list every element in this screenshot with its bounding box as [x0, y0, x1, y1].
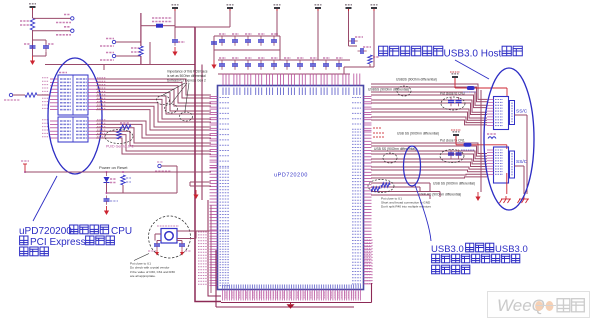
capacitor C31 [336, 58, 343, 70]
wire USB3 SS bus lower [371, 143, 487, 178]
annotation left [19, 225, 132, 256]
label put close CN3 [440, 92, 465, 96]
ferrite bead FB3 [461, 143, 475, 150]
dashed ellipse trace [383, 153, 397, 163]
resistor R40 [371, 183, 390, 191]
resistor R44 [368, 55, 379, 64]
U1 top pins [223, 74, 360, 96]
svg-text:Power on Reset: Power on Reset [99, 165, 128, 170]
power flag [371, 5, 378, 14]
wire [195, 11, 230, 27]
capacitor C17 [245, 58, 252, 70]
callout crystal note [130, 262, 175, 279]
wire [155, 231, 210, 244]
label Power on Reset [99, 165, 128, 170]
watermark text [497, 296, 584, 315]
svg-text:USB SS (90Ohm differential): USB SS (90Ohm differential) [374, 147, 416, 151]
capacitor C45 [456, 97, 462, 106]
ground [287, 303, 295, 309]
ground [193, 190, 198, 199]
U1 left pin labels [198, 232, 208, 284]
U1 right pin labels [364, 240, 373, 284]
capacitor C47 [456, 150, 462, 159]
wire [24, 171, 211, 173]
capacitor C60 [148, 241, 160, 252]
wire [276, 11, 278, 36]
dashed ellipse PU/D [105, 130, 133, 144]
wire [481, 90, 507, 194]
wire [214, 49, 280, 51]
power flag VCC 3V3 [29, 4, 36, 13]
wire [214, 36, 280, 60]
wire [515, 115, 528, 194]
ellipse around JP2 [48, 58, 102, 174]
capacitor C5 [43, 43, 54, 52]
node pcietxp [33, 15, 74, 23]
inductor L2 [487, 134, 496, 139]
ground [475, 192, 480, 201]
svg-text:Put close to CN1: Put close to CN1 [440, 139, 465, 143]
watermark box [488, 292, 590, 318]
svg-text:CPU: CPU [111, 226, 132, 237]
U1 left pins [210, 97, 230, 286]
label put close CN1 [440, 139, 465, 143]
svg-text:SS/C: SS/C [516, 109, 528, 115]
wire [373, 11, 375, 67]
node perst [4, 93, 25, 100]
wire [190, 182, 211, 186]
dashed ellipse trace 1 [157, 96, 170, 105]
svg-text:PCI Express: PCI Express [30, 237, 86, 248]
resistor R2 [121, 175, 131, 185]
dashed ellipse trace [397, 86, 411, 96]
svg-text:USB SS (90Ohm differential): USB SS (90Ohm differential) [433, 182, 475, 186]
node pcierxn [100, 53, 141, 61]
svg-text:uPD720200: uPD720200 [19, 226, 72, 237]
capacitor C56 [219, 34, 226, 46]
power flag [227, 5, 234, 14]
svg-text:are all appropriate.: are all appropriate. [130, 274, 156, 278]
connector CN3 [487, 97, 528, 130]
node pciebwake [155, 162, 177, 171]
ground [180, 250, 184, 256]
annotation right [431, 243, 528, 274]
ground [104, 206, 109, 215]
ground [155, 250, 159, 256]
power flag down [21, 161, 29, 172]
capacitor C33 [349, 37, 364, 44]
U1 bottom pins [223, 285, 361, 301]
dashed ellipse caps CN3 [441, 97, 465, 110]
resistor R46 [120, 123, 131, 129]
dashed ellipse trace 3 [180, 112, 193, 121]
power flag VCC-5 [450, 72, 460, 83]
capacitor C1 [172, 37, 185, 46]
capacitor C11 [271, 34, 278, 46]
wire [456, 138, 507, 149]
wire [455, 80, 507, 97]
wire [25, 171, 124, 173]
svg-text:PU/D Gen to JP2: PU/D Gen to JP2 [106, 145, 134, 149]
capacitor C9 [258, 34, 265, 46]
power flag [345, 5, 352, 14]
svg-text:to meet PCI Express Gen 2: to meet PCI Express Gen 2 [167, 78, 206, 82]
wire [348, 11, 350, 41]
node pcietxn [33, 27, 74, 35]
callout R40 note [381, 197, 431, 209]
label USBSS2 [374, 147, 416, 151]
connector JP2 [42, 73, 106, 143]
power flag VCC-5 [451, 130, 461, 141]
leader line [455, 60, 489, 79]
capacitor C58 [232, 34, 239, 46]
svg-text:Put close to CN3: Put close to CN3 [440, 92, 465, 96]
capacitor C7 [245, 34, 252, 46]
label USBSS3 [433, 182, 475, 186]
capacitor C23 [284, 58, 291, 70]
label USBSS mid [397, 132, 439, 136]
label USB3S [396, 78, 437, 82]
wire [174, 11, 176, 38]
capacitor C21 [271, 58, 278, 70]
capacitor C46 [448, 150, 454, 159]
red labels [373, 128, 385, 137]
ground [211, 60, 216, 69]
wire [141, 42, 195, 65]
ferrite bead FB2 [463, 86, 477, 92]
op-amp U1 body [218, 86, 364, 290]
svg-text:USB3.0: USB3.0 [495, 244, 528, 255]
power flag [274, 5, 281, 14]
wire [317, 11, 319, 60]
svg-text:USB SS (90Ohm differential): USB SS (90Ohm differential) [397, 132, 439, 136]
U1 right pins [352, 97, 372, 284]
chassis ground [518, 196, 530, 203]
annotation top right [379, 46, 523, 59]
svg-text:SS/C: SS/C [516, 159, 528, 165]
crystal X1 [157, 226, 179, 243]
capacitor C15 [232, 58, 239, 70]
wire [218, 59, 350, 61]
callout arrows [163, 83, 189, 111]
capacitor C27 [310, 58, 317, 70]
chassis ground [500, 196, 512, 203]
wire [175, 26, 195, 28]
svg-text:is set as 50Ohm differential: is set as 50Ohm differential [167, 74, 206, 78]
connector CN1 [487, 147, 528, 183]
wire [141, 25, 156, 27]
capacitor C44 [448, 97, 454, 106]
svg-text:USB3S (90Ohm differential): USB3S (90Ohm differential) [396, 78, 437, 82]
ellipse six data lines [404, 146, 421, 186]
svg-text:Don't split R40 into multiple: Don't split R40 into multiple resistors [381, 205, 431, 209]
power flag [315, 5, 322, 14]
capacitor C13 [219, 58, 226, 70]
capacitor C55 [211, 39, 217, 48]
wire [106, 166, 178, 194]
svg-text:USB3.0 Host: USB3.0 Host [444, 49, 502, 60]
resistor R45 [117, 130, 121, 139]
leader line [134, 254, 149, 261]
wire bottom bus [221, 283, 372, 303]
wire PCIe bus [96, 79, 211, 154]
dashed circle crystal [149, 216, 191, 258]
resistor R48 [131, 46, 143, 56]
wire bottom bus 2 [216, 250, 354, 307]
svg-text:USB3.0: USB3.0 [431, 244, 464, 255]
ellipse around USB connectors [484, 68, 534, 210]
callout impedance note [167, 70, 208, 83]
node pcierxp [100, 39, 141, 47]
bottom bus pin labels [226, 292, 359, 299]
wire [344, 41, 374, 74]
wire [195, 27, 221, 302]
dashed ellipse R40 [368, 180, 394, 193]
wire [45, 65, 195, 71]
wire USB3 SS bus upper [371, 84, 487, 125]
ground [30, 52, 46, 65]
label USBHS [419, 193, 461, 197]
label USBSSB [368, 88, 409, 92]
svg-text:USBSS (90Ohm differential): USBSS (90Ohm differential) [368, 88, 409, 92]
ferrite bead FB1 [152, 18, 175, 28]
power flag [172, 5, 179, 14]
capacitor C25 [297, 58, 304, 70]
diode D4 [104, 172, 117, 183]
resistor R49 [20, 18, 35, 30]
dashed ellipse caps CN1 [440, 150, 464, 163]
capacitor C4 [24, 43, 36, 52]
wire [371, 183, 440, 199]
resistor R47 [25, 93, 50, 97]
leader line [33, 176, 57, 221]
ground [172, 47, 177, 56]
leader line [415, 185, 431, 241]
capacitor C19 [258, 58, 265, 70]
wire [33, 10, 47, 56]
capacitor C64 [104, 196, 119, 205]
wire [140, 13, 142, 65]
capacitor C35 [358, 47, 372, 54]
svg-text:Impedance of this PCB trace: Impedance of this PCB trace [167, 70, 208, 74]
wire [202, 65, 221, 297]
svg-text:uPD720200: uPD720200 [274, 173, 308, 179]
label PU/D Gen to JP2 [106, 145, 134, 149]
wire [218, 73, 350, 75]
capacitor C29 [323, 58, 330, 70]
capacitor C61 [179, 241, 191, 252]
dashed ellipse trace 2 [165, 104, 178, 113]
